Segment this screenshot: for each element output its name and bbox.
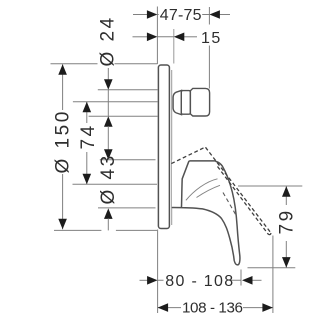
escutcheon sleeve line (behind plate): [171, 70, 173, 225]
Ø150 label: [55, 110, 71, 174]
svg-text:15: 15: [201, 30, 222, 47]
extension line plate front face (top): [156, 7, 158, 65]
dimension line 108-136: [158, 307, 273, 309]
Ø43 extension line bottom: [98, 207, 156, 209]
svg-text:Ø 43: Ø 43: [98, 153, 119, 204]
spout connection large cylinder: [190, 88, 209, 116]
extension line 15-dim right: [173, 29, 175, 64]
spout connection small cylinder: [181, 91, 190, 115]
Ø24 dimension line, outside arrows: [107, 68, 109, 80]
dimension text 108 - 136: [181, 300, 243, 315]
dashed raised lever: inner line: [223, 193, 237, 217]
Ø74 label: [80, 123, 95, 152]
svg-text:108 - 136: 108 - 136: [182, 300, 243, 317]
dashed raised lever: tip: [268, 233, 271, 235]
escutcheon plate (side view): [158, 65, 169, 229]
handle white fill: [172, 160, 240, 265]
Ø74 extension line bottom: [73, 183, 158, 185]
Ø43 extension line top: [100, 159, 156, 161]
79 extension line top: [238, 185, 302, 187]
bottom extension line plate face: [157, 230, 159, 314]
Ø150 extension line bottom: [54, 229, 101, 231]
svg-text:47-75: 47-75: [160, 7, 202, 24]
spout connection dome: [173, 90, 181, 114]
79 extension line bottom: [248, 267, 296, 269]
dimension line 47-75: [133, 14, 147, 16]
Ø24 label: [98, 51, 115, 68]
dimension line 80-108: [140, 279, 148, 281]
svg-text:Ø 24: Ø 24: [98, 15, 119, 66]
dashed raised lever: rising edge: [171, 147, 205, 164]
79 label: [279, 206, 295, 240]
handle cap and lever outline: [172, 161, 240, 265]
svg-text:74: 74: [78, 123, 99, 149]
Ø150 extension line top: [51, 63, 158, 65]
Ø74 extension line top: [73, 101, 158, 103]
Ø24 extension line bottom: [89, 115, 158, 117]
bottom extension line solid lever tip: [240, 270, 242, 286]
dimension line 15: [133, 36, 148, 38]
svg-text:80 - 108: 80 - 108: [165, 273, 234, 290]
dimension text 47-75: [159, 7, 203, 22]
dimension text 15: [198, 25, 221, 46]
svg-text:Ø 150: Ø 150: [53, 109, 74, 173]
lever accent line 2: [197, 185, 221, 197]
svg-text:79: 79: [277, 208, 298, 234]
79 dimension line with arrows: [285, 186, 287, 205]
Ø24 extension line top: [98, 89, 158, 91]
Ø74 dimension line with arrows: [86, 102, 88, 123]
extension line spout end (top): [208, 7, 210, 89]
Ø43 dimension line, outside arrows: [107, 126, 109, 150]
Ø150 dimension line with arrows: [62, 64, 64, 110]
dashed raised lever: upper edge: [206, 147, 272, 233]
bottom extension line dashed lever tip: [272, 236, 274, 314]
dimension text 80 - 108: [164, 273, 230, 288]
lever accent line 1: [186, 179, 218, 201]
dashed raised lever: lower edge: [218, 167, 269, 235]
